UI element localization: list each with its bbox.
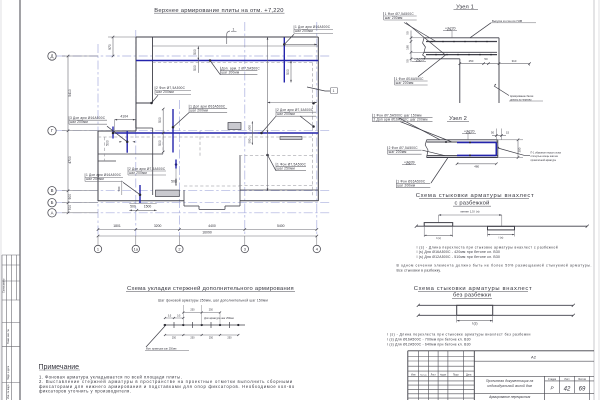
svg-text:250: 250 bbox=[227, 336, 232, 339]
svg-text:50: 50 bbox=[484, 57, 488, 61]
svg-text:l (s) - Длина перехлеста при с: l (s) - Длина перехлеста при стыковке ар… bbox=[387, 333, 531, 337]
svg-text:4700: 4700 bbox=[68, 156, 72, 164]
svg-text:2 Доп арм Ø16А500С шаг 200мм: 2 Доп арм Ø16А500С шаг 200мм bbox=[374, 118, 428, 122]
svg-text:Д: Д bbox=[51, 54, 54, 59]
svg-text:Доп арматура шаг 250мм: Доп арматура шаг 250мм bbox=[204, 317, 234, 320]
svg-text:Схема стыковки арматуры внахле: Схема стыковки арматуры внахлест bbox=[414, 286, 533, 292]
svg-text:l (s) Для Ø12А500С - 510мм пр: l (s) Для Ø12А500С - 510мм при бетоне кл… bbox=[417, 255, 500, 259]
svg-text:Армирование перекрытия: Армирование перекрытия bbox=[488, 395, 530, 399]
svg-text:шаг 250мм: шаг 250мм bbox=[277, 167, 295, 171]
svg-text:В: В bbox=[51, 188, 54, 193]
svg-text:Стадия: Стадия bbox=[548, 378, 557, 381]
svg-text:шаг 200мм: шаг 200мм bbox=[295, 29, 313, 33]
svg-text:250: 250 bbox=[190, 336, 195, 339]
svg-text:500: 500 bbox=[193, 49, 197, 55]
svg-text:шаг 200мм: шаг 200мм bbox=[385, 16, 403, 20]
svg-text:250: 250 bbox=[190, 309, 195, 312]
svg-text:l (s) Для Ø16А500С - 700мм пр: l (s) Для Ø16А500С - 700мм при бетоне кл… bbox=[387, 338, 470, 342]
svg-text:шаг 200мм: шаг 200мм bbox=[397, 184, 415, 188]
svg-text:50: 50 bbox=[406, 31, 410, 35]
svg-text:l (s): l (s) bbox=[436, 236, 441, 240]
svg-text:4400: 4400 bbox=[208, 224, 216, 228]
svg-text:16090: 16090 bbox=[202, 231, 212, 235]
svg-text:900: 900 bbox=[68, 194, 72, 200]
svg-text:l (s): l (s) bbox=[472, 321, 478, 325]
svg-text:индивидуальный жилой дом: индивидуальный жилой дом bbox=[487, 384, 532, 388]
svg-text:l (s): l (s) bbox=[499, 235, 504, 239]
svg-text:42: 42 bbox=[564, 386, 571, 392]
svg-text:+7,220: +7,220 bbox=[464, 129, 475, 133]
svg-text:Схема стыковки арматуры внахле: Схема стыковки арматуры внахлест bbox=[416, 193, 535, 199]
svg-text:№док: №док bbox=[440, 373, 447, 376]
svg-text:Б: Б bbox=[51, 200, 54, 205]
svg-text:50: 50 bbox=[406, 59, 410, 63]
svg-text:500: 500 bbox=[158, 140, 162, 146]
svg-text:А: А bbox=[51, 210, 54, 215]
svg-text:970: 970 bbox=[108, 44, 112, 50]
svg-text:4104: 4104 bbox=[120, 115, 128, 119]
svg-text:l (s) - Длина перехлеста при с: l (s) - Длина перехлеста при стыковке ар… bbox=[417, 245, 558, 249]
svg-text:15: 15 bbox=[506, 131, 510, 135]
svg-text:шаг 200мм: шаг 200мм bbox=[86, 177, 104, 181]
svg-text:Подп. и дата: Подп. и дата bbox=[7, 365, 10, 380]
svg-text:Кол.уч: Кол.уч bbox=[420, 374, 427, 376]
svg-text:Лист: Лист bbox=[431, 373, 437, 376]
svg-text:5400: 5400 bbox=[277, 224, 285, 228]
svg-text:1: 1 bbox=[333, 89, 335, 93]
svg-text:Шаг фоновой арматуры 250мм, ша: Шаг фоновой арматуры 250мм, шаг дополнит… bbox=[158, 299, 268, 303]
svg-text:1: 1 bbox=[97, 246, 99, 251]
svg-text:500: 500 bbox=[106, 140, 110, 146]
svg-text:500: 500 bbox=[117, 186, 121, 191]
svg-text:А2: А2 bbox=[531, 355, 537, 360]
svg-text:3: 3 bbox=[244, 246, 246, 251]
svg-text:700: 700 bbox=[68, 205, 72, 211]
svg-text:Подп: Подп bbox=[453, 373, 459, 376]
svg-text:шаг 200мм: шаг 200мм bbox=[396, 81, 414, 85]
svg-text:480: 480 bbox=[474, 164, 479, 168]
svg-text:Проектная документация на: Проектная документация на bbox=[486, 379, 533, 383]
svg-text:Схема укладки стержней дополни: Схема укладки стержней дополнительного а… bbox=[127, 285, 294, 292]
svg-text:Дата: Дата bbox=[466, 373, 472, 376]
svg-text:проволочной арматуре: проволочной арматуре bbox=[531, 159, 557, 162]
svg-text:с разбежкой: с разбежкой bbox=[454, 200, 489, 207]
svg-text:фиксаторов уточнить у производ: фиксаторов уточнить у производителя. bbox=[39, 389, 131, 394]
svg-text:шаг 200мм: шаг 200мм bbox=[156, 90, 174, 94]
svg-text:Листов: Листов bbox=[578, 378, 586, 381]
svg-text:500: 500 bbox=[286, 69, 290, 75]
svg-text:Изм: Изм bbox=[411, 373, 416, 376]
svg-text:менее 1,5 l (н): менее 1,5 l (н) bbox=[461, 210, 480, 214]
svg-text:без разбежки: без разбежки bbox=[453, 293, 491, 299]
svg-text:2: 2 bbox=[178, 246, 180, 251]
svg-text:250: 250 bbox=[209, 336, 214, 339]
svg-text:Выпуски из стен см 710В: Выпуски из стен см 710В bbox=[492, 19, 522, 23]
svg-text:250: 250 bbox=[209, 309, 214, 312]
svg-text:250: 250 bbox=[172, 336, 177, 339]
svg-text:3200: 3200 bbox=[154, 224, 162, 228]
svg-text:200: 200 bbox=[518, 147, 522, 152]
svg-text:500: 500 bbox=[158, 117, 162, 123]
svg-text:В одном сечении элемента должн: В одном сечении элемента должно быть не … bbox=[397, 264, 593, 268]
svg-text:l (s) Для Ø12А500С - 640мм пр: l (s) Для Ø12А500С - 640мм при бетоне кл… bbox=[387, 342, 470, 346]
svg-text:Лист: Лист bbox=[564, 378, 570, 381]
svg-text:шаг 200мм: шаг 200мм bbox=[221, 71, 239, 75]
svg-text:шаг 200мм: шаг 200мм bbox=[70, 120, 88, 124]
svg-text:Узел 2: Узел 2 bbox=[449, 116, 467, 122]
svg-text:500: 500 bbox=[247, 138, 251, 143]
svg-text:1: 1 bbox=[233, 28, 235, 32]
svg-text:500: 500 bbox=[174, 178, 178, 183]
svg-text:50: 50 bbox=[491, 131, 495, 135]
svg-text:+7,039: +7,039 bbox=[414, 57, 425, 61]
svg-text:шаг 200мм: шаг 200мм bbox=[277, 112, 295, 116]
svg-text:Согласовано: Согласовано bbox=[3, 278, 6, 293]
svg-text:l (s) Для Ø16А500С - 420мм пр: l (s) Для Ø16А500С - 420мм при бетоне кл… bbox=[417, 250, 500, 254]
svg-text:5410: 5410 bbox=[68, 89, 72, 97]
svg-text:250: 250 bbox=[469, 59, 474, 63]
svg-text:500: 500 bbox=[193, 65, 197, 71]
svg-text:П-1 образные перши стыка: П-1 образные перши стыка bbox=[531, 152, 562, 155]
svg-text:шаг 200мм: шаг 200мм bbox=[129, 171, 147, 175]
svg-text:Инв. № подл.: Инв. № подл. bbox=[7, 384, 10, 399]
svg-text:Взам. инв. №: Взам. инв. № bbox=[7, 329, 10, 344]
svg-text:+7,220: +7,220 bbox=[445, 26, 456, 30]
svg-text:310: 310 bbox=[512, 59, 517, 63]
svg-text:1500: 1500 bbox=[144, 205, 152, 209]
svg-text:отогнутые концы шая на: отогнутые концы шая на bbox=[531, 155, 559, 158]
svg-text:шаг 200мм: шаг 200мм bbox=[389, 150, 407, 154]
svg-text:шаг 200мм: шаг 200мм bbox=[190, 109, 208, 113]
svg-text:500: 500 bbox=[247, 125, 251, 130]
svg-text:180: 180 bbox=[406, 45, 410, 50]
svg-text:+7,039: +7,039 bbox=[404, 160, 415, 164]
svg-text:Все стыковки в разбежку.: Все стыковки в разбежку. bbox=[397, 268, 442, 272]
svg-text:500: 500 bbox=[130, 205, 136, 209]
svg-text:1801: 1801 bbox=[113, 224, 121, 228]
svg-text:69: 69 bbox=[579, 386, 586, 392]
